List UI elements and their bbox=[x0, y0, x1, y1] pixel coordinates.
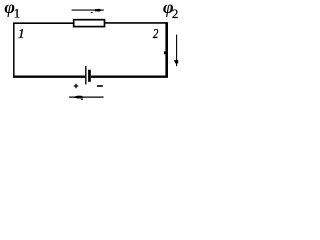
svg-text:1: 1 bbox=[14, 6, 21, 21]
svg-text:1: 1 bbox=[18, 27, 25, 42]
svg-text:2: 2 bbox=[153, 26, 158, 42]
svg-text:2: 2 bbox=[172, 6, 179, 21]
